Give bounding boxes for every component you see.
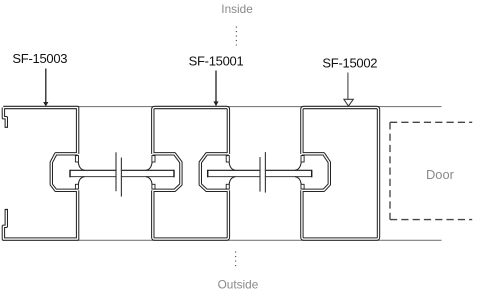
svg-text:Inside: Inside (221, 2, 253, 16)
svg-text:Door: Door (426, 167, 455, 182)
svg-text:Outside: Outside (218, 277, 259, 291)
svg-text:SF-15002: SF-15002 (322, 56, 377, 71)
svg-text:SF-15003: SF-15003 (12, 51, 67, 66)
svg-text:SF-15001: SF-15001 (189, 54, 244, 69)
